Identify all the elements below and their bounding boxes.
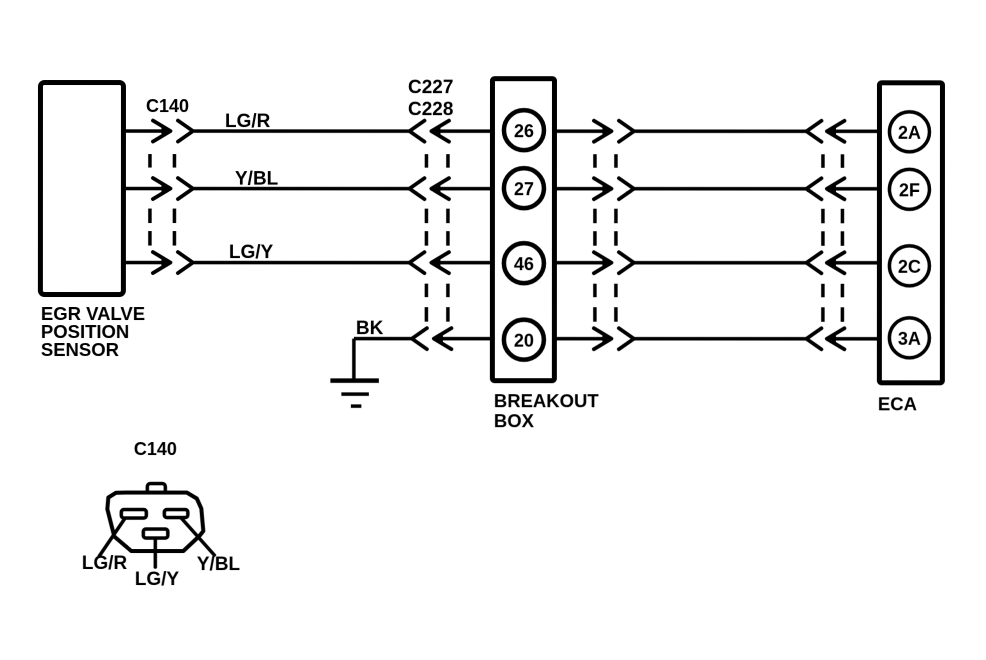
svg-text:ECA: ECA [878,393,917,414]
svg-text:LG/R: LG/R [225,111,271,132]
svg-text:LG/Y: LG/Y [229,242,274,263]
svg-text:Y/BL: Y/BL [235,169,279,190]
svg-text:C140: C140 [146,96,189,116]
svg-text:C227: C227 [408,77,453,98]
svg-text:20: 20 [514,330,534,350]
svg-text:46: 46 [514,254,534,274]
svg-text:LG/Y: LG/Y [135,569,180,590]
svg-text:BREAKOUT: BREAKOUT [494,390,600,411]
svg-text:C140: C140 [134,439,177,459]
svg-text:BOX: BOX [494,410,535,431]
svg-text:Y/BL: Y/BL [197,554,241,575]
svg-text:27: 27 [514,179,534,199]
svg-text:SENSOR: SENSOR [41,339,119,360]
svg-text:2F: 2F [899,180,920,200]
svg-text:26: 26 [514,121,534,141]
svg-text:2C: 2C [898,257,921,277]
svg-text:BK: BK [356,318,384,339]
svg-text:LG/R: LG/R [82,553,128,574]
svg-text:3A: 3A [898,329,921,349]
svg-text:C228: C228 [408,99,453,120]
svg-text:2A: 2A [898,123,921,143]
